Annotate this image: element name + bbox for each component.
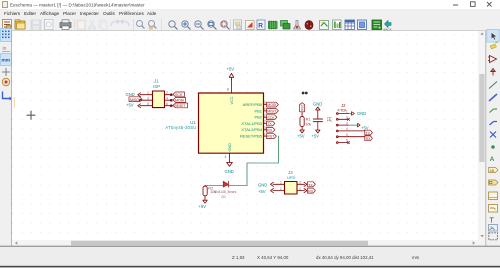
svg-text:5: 5 — [346, 133, 348, 137]
svg-text:MOSI: MOSI — [175, 99, 184, 103]
svg-text:3: 3 — [299, 181, 301, 185]
svg-text:1: 1 — [147, 91, 149, 95]
no-connect at J2 pin 2 — [347, 118, 349, 120]
svg-text:6: 6 — [264, 107, 266, 111]
svg-text:+5V: +5V — [361, 126, 369, 131]
J1 pin 6 — [165, 105, 173, 107]
J3 pins — [271, 182, 308, 193]
svg-text:Outils: Outils — [103, 11, 115, 16]
place image icon — [489, 225, 498, 232]
global label RX at J2 pin 5 — [349, 136, 373, 141]
J1 pin 2 — [165, 94, 173, 96]
U1 right pin numbers — [264, 101, 266, 137]
svg-text:2: 2 — [166, 91, 168, 95]
svg-text:Fichiers: Fichiers — [4, 11, 21, 16]
svg-text:PB2: PB2 — [254, 115, 262, 120]
leave sheet icon — [246, 21, 255, 30]
global label SCK at U1 — [267, 115, 277, 120]
global label MISO at J1 — [129, 97, 142, 102]
svg-text:UPD: UPD — [287, 175, 296, 180]
IC U1 ATtiny45 — [199, 93, 264, 153]
svg-text:10k: 10k — [305, 123, 311, 127]
svg-text:GND: GND — [228, 143, 232, 152]
new schematic icon — [3, 20, 12, 30]
J2 pin numbers — [346, 110, 348, 143]
place symbol icon — [488, 56, 497, 63]
svg-text:mm: mm — [2, 59, 11, 64]
svg-text:RESET/PB5: RESET/PB5 — [240, 134, 263, 139]
select tool icon (selected) — [487, 30, 499, 43]
svg-text:4: 4 — [299, 187, 301, 191]
svg-text:1: 1 — [346, 110, 348, 114]
left toolbar border — [11, 31, 13, 246]
global label MISO at U1 — [267, 109, 279, 114]
J1 pin 4 — [165, 99, 173, 101]
cursor shape icon — [2, 68, 10, 76]
undo icon (disabled) — [111, 19, 119, 26]
mm units icon (selected) — [1, 54, 12, 66]
svg-text:RX: RX — [308, 190, 314, 194]
svg-text:D1: D1 — [222, 195, 227, 199]
svg-text:6: 6 — [166, 102, 168, 106]
global label RX at U1 — [267, 127, 275, 132]
svg-text:Placer: Placer — [63, 11, 76, 16]
svg-text:SCK: SCK — [175, 93, 183, 97]
svg-text:GND: GND — [126, 92, 135, 97]
wire + ground flag at J2 pin 1 — [349, 113, 352, 115]
connector J1 — [153, 91, 165, 108]
hierarchical label icon — [489, 180, 499, 185]
svg-text:MISO: MISO — [267, 110, 276, 114]
place power port icon — [491, 69, 495, 76]
global label icon — [489, 168, 499, 174]
svg-text:SCK: SCK — [267, 116, 275, 120]
annotate icon — [257, 20, 265, 30]
svg-text:T: T — [490, 218, 495, 225]
svg-text:AREF/PB0: AREF/PB0 — [243, 102, 263, 107]
zoom in icon — [182, 21, 191, 30]
edit footprint table icon — [345, 20, 355, 30]
global label MOSI at U1 — [267, 102, 279, 107]
ERC ladybug icon — [305, 21, 313, 30]
svg-text:A: A — [490, 156, 495, 163]
svg-text:RX: RX — [267, 128, 273, 132]
svg-text:4: 4 — [225, 155, 227, 159]
no-connect marks — [302, 92, 308, 95]
inch units icon — [2, 46, 10, 52]
svg-text:TX: TX — [308, 183, 313, 187]
U1 GND pin 4 wire — [229, 153, 231, 161]
erc chip icon — [269, 21, 278, 30]
svg-text:Préférences: Préférences — [119, 11, 144, 16]
zoom to selection icon — [221, 21, 230, 30]
zoom out icon — [195, 21, 204, 30]
svg-text:+5V: +5V — [199, 204, 207, 209]
J1 pin 3 — [141, 99, 153, 101]
svg-text:+5V: +5V — [312, 133, 320, 138]
svg-text:mm: mm — [412, 255, 420, 260]
vertical scrollbar — [478, 31, 486, 246]
global label SCK at J1 — [173, 92, 185, 97]
diode D1 — [223, 181, 228, 187]
svg-text:3: 3 — [346, 121, 348, 125]
crosshair cursor — [27, 111, 35, 119]
svg-text:MOSI: MOSI — [267, 103, 276, 107]
J2 pins 1-6 — [336, 113, 348, 144]
ground below U1 — [227, 162, 233, 167]
back-annotate icon — [384, 21, 392, 32]
paste icon (disabled) — [77, 20, 86, 30]
zoom refresh icon — [169, 21, 178, 30]
no-connect at J2 pin 6 — [347, 141, 349, 143]
svg-text:10k: 10k — [210, 190, 216, 194]
svg-text:R1: R1 — [306, 118, 311, 122]
run pcbnew icon — [372, 20, 382, 30]
svg-text:RST: RST — [300, 104, 304, 110]
J1 pin numbers — [147, 91, 168, 106]
J3 pin numbers — [280, 181, 301, 191]
svg-text:RST: RST — [267, 135, 275, 139]
svg-text:Affichage: Affichage — [40, 11, 60, 16]
power +5V below R2 — [203, 200, 207, 203]
svg-text:GND: GND — [225, 169, 234, 174]
svg-text:ISP: ISP — [153, 84, 160, 89]
svg-text:GND: GND — [258, 182, 267, 187]
HV wire orientation icon — [3, 92, 13, 101]
svg-text:Editer: Editer — [24, 11, 36, 16]
hierarchical sheet icon — [489, 192, 498, 200]
find and replace icon — [149, 21, 157, 30]
grid visibility icon (selected) — [1, 29, 12, 42]
left toolbar — [0, 31, 12, 246]
app icon — [3, 2, 8, 8]
svg-text:Aide: Aide — [147, 11, 157, 16]
global label RST above R1 — [300, 103, 305, 112]
canvas / right toolbar separator — [485, 31, 487, 246]
save icon (disabled) — [31, 20, 41, 30]
place wire icon — [489, 82, 497, 89]
global label TX at J3 — [308, 182, 316, 188]
copy icon (disabled) — [99, 20, 107, 30]
symbol chips icon — [281, 21, 291, 30]
place text icon — [490, 218, 495, 225]
wire + power +5V at J2 pin 3 — [349, 124, 358, 126]
delete tool icon — [489, 233, 498, 240]
svg-text:4: 4 — [166, 96, 168, 100]
svg-text:J1: J1 — [154, 79, 159, 84]
svg-text:ATtiny45-20SU: ATtiny45-20SU — [165, 125, 196, 130]
global label MOSI at J1 — [173, 98, 186, 103]
title bar — [0, 0, 500, 9]
top toolbar — [0, 17, 500, 31]
hierarchy navigator icon — [234, 20, 242, 30]
global label RESET at J1 — [173, 103, 188, 108]
canvas — [12, 31, 478, 240]
window minimize button — [453, 5, 458, 6]
bus-to-bus entry icon — [490, 122, 498, 126]
svg-text:MISO: MISO — [130, 98, 139, 102]
BOM icon — [333, 20, 342, 30]
zoom fit icon — [208, 21, 217, 30]
svg-text:XTAL1/PB3: XTAL1/PB3 — [241, 121, 262, 126]
wire from U1 reset net down to R2/D1 — [205, 136, 279, 185]
power +5V below R1 — [300, 130, 304, 133]
junction icon — [491, 145, 495, 149]
svg-text:VCC: VCC — [230, 96, 234, 104]
svg-text:1N4148_5mars: 1N4148_5mars — [215, 190, 237, 194]
global label RX at J3 — [308, 188, 316, 194]
svg-text:Inspecter: Inspecter — [80, 11, 99, 16]
print icon — [60, 20, 71, 30]
svg-text:5: 5 — [264, 101, 266, 105]
svg-text:3: 3 — [147, 96, 149, 100]
global label RST at U1 — [267, 134, 277, 139]
svg-text:AB: AB — [490, 169, 495, 173]
place bus icon — [489, 94, 497, 101]
edit symbol fields icon — [294, 21, 301, 30]
find icon — [137, 21, 145, 29]
capacitor C1 — [313, 119, 322, 130]
svg-text:+5V: +5V — [297, 133, 305, 138]
cut icon (disabled) — [89, 20, 96, 29]
svg-text:1: 1 — [264, 132, 266, 136]
svg-text:RX: RX — [366, 137, 372, 141]
resistor R1 — [300, 112, 304, 130]
U1 right pin names — [240, 102, 263, 139]
J1 pin 5 — [140, 105, 153, 107]
net label icon — [490, 156, 495, 163]
svg-text:+5V: +5V — [227, 67, 235, 72]
hidden pins icon — [2, 78, 10, 86]
U1 VCC pin 8 wire — [231, 79, 233, 93]
right toolbar — [486, 31, 500, 268]
svg-text:5: 5 — [147, 102, 149, 106]
sheet edge marks — [13, 98, 15, 108]
svg-text:1uF: 1uF — [328, 117, 332, 123]
page settings icon — [45, 20, 54, 30]
window close button — [487, 2, 492, 7]
window maximize button — [471, 2, 476, 7]
wire-to-bus entry icon — [490, 109, 498, 113]
svg-text:GND: GND — [313, 101, 322, 106]
svg-text:R: R — [258, 23, 263, 30]
svg-text:TX: TX — [267, 122, 272, 126]
highlight net icon — [490, 42, 498, 50]
power +5V above U1 — [229, 73, 234, 80]
svg-text:TX: TX — [366, 131, 371, 135]
svg-text:Eeschema — master1 [/] — D:\fa: Eeschema — master1 [/] — D:\fabac2019\we… — [10, 2, 145, 7]
svg-text:RESET: RESET — [175, 104, 186, 108]
status bar — [0, 245, 500, 247]
horizontal scrollbar — [12, 240, 478, 246]
U1 right pin stubs — [264, 105, 267, 137]
svg-text:+5V: +5V — [126, 102, 134, 107]
svg-text:GND: GND — [357, 111, 366, 116]
redo icon (disabled) — [121, 19, 129, 26]
assign footprints icon — [320, 21, 329, 30]
svg-text:+5V: +5V — [258, 189, 266, 194]
open project icon — [15, 20, 25, 29]
global label TX at U1 — [267, 121, 275, 126]
power +5V below C1 — [316, 130, 320, 133]
menu bar — [0, 9, 500, 17]
svg-text:PB1: PB1 — [254, 108, 262, 113]
svg-text:4: 4 — [346, 127, 348, 131]
J1 pin 1 — [138, 93, 173, 108]
connector J3 — [285, 182, 298, 195]
svg-text:dx 40,64 dy 94,00 dist 102,41: dx 40,64 dy 94,00 dist 102,41 — [316, 255, 374, 260]
global label TX at J2 pin 4 — [349, 130, 373, 135]
svg-text:X 40,64 Y 94,00: X 40,64 Y 94,00 — [257, 255, 289, 260]
svg-text:2: 2 — [280, 187, 282, 191]
svg-text:7: 7 — [264, 113, 266, 117]
svg-text:2: 2 — [264, 120, 266, 124]
resistor R2 — [203, 186, 207, 200]
svg-text:XTAL2/PB4: XTAL2/PB4 — [241, 127, 262, 132]
svg-text:Z 1,93: Z 1,93 — [232, 255, 245, 260]
svg-text:8: 8 — [227, 88, 229, 92]
import sheet pin icon — [489, 205, 498, 213]
svg-text:1: 1 — [280, 181, 282, 185]
footprint editor icon — [358, 20, 367, 30]
svg-text:3: 3 — [264, 126, 266, 130]
svg-text:BACK: BACK — [384, 28, 392, 32]
no connect icon — [490, 132, 496, 138]
